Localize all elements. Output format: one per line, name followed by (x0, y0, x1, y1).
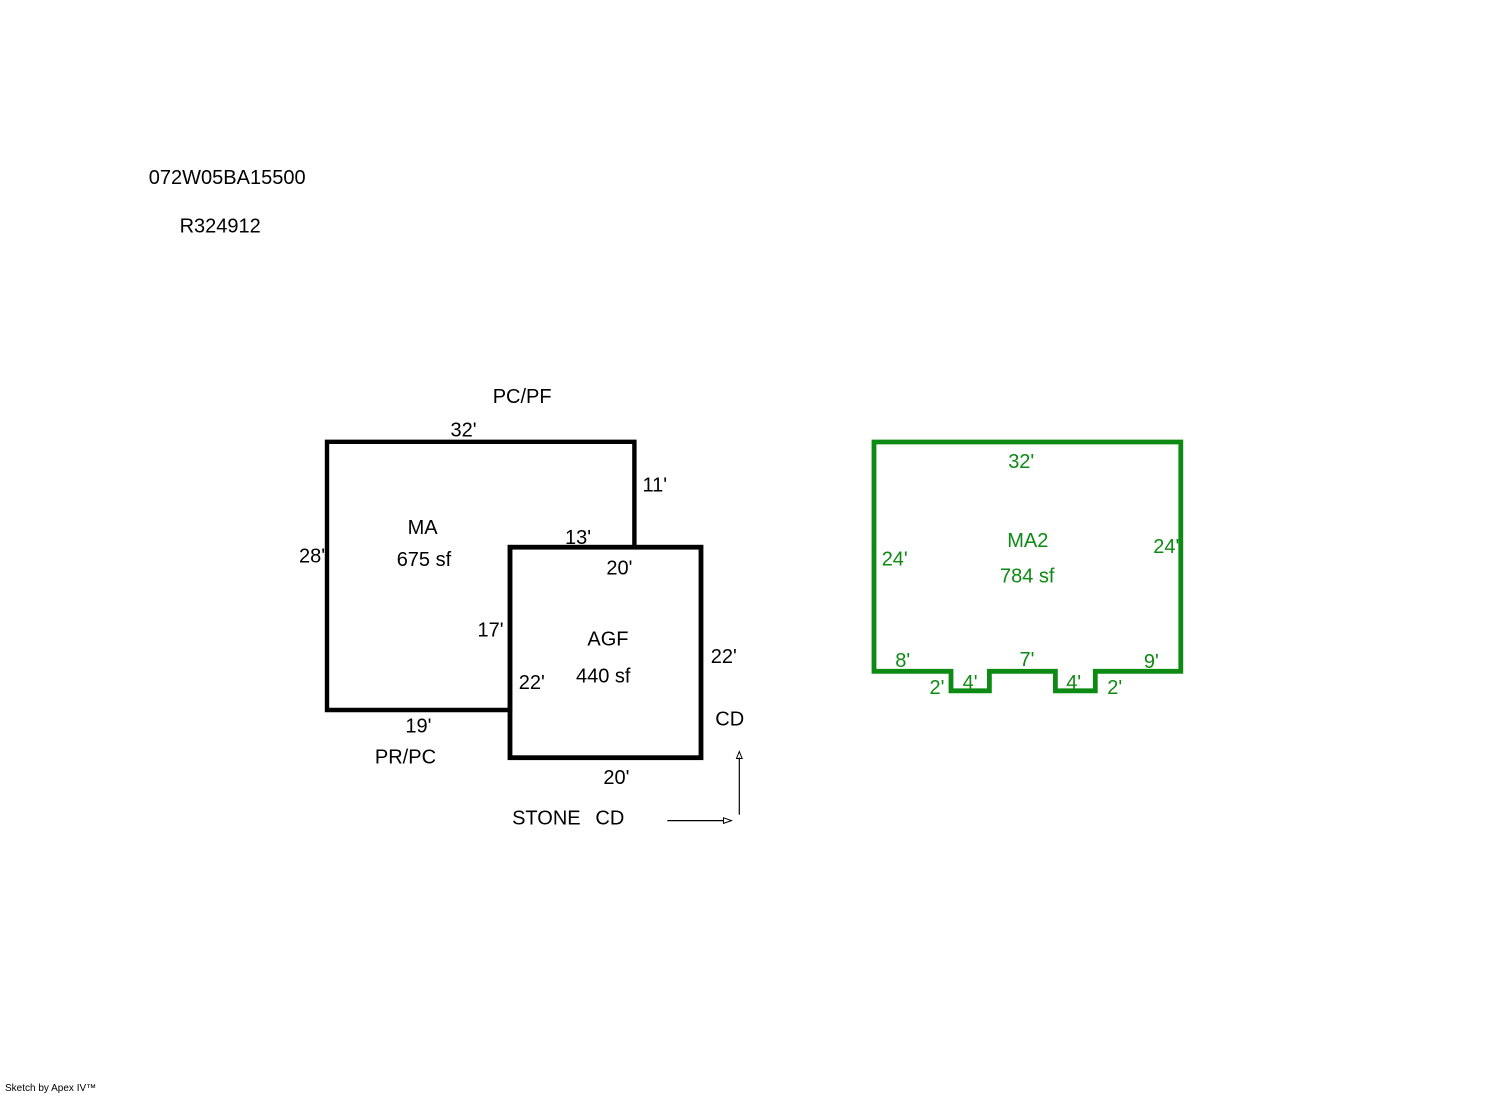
svg-text:28': 28' (299, 546, 325, 568)
svg-text:32': 32' (451, 420, 477, 442)
svg-text:13': 13' (565, 527, 591, 549)
MA outline polygon (327, 442, 634, 710)
svg-text:17': 17' (478, 620, 504, 642)
svg-text:24': 24' (1153, 536, 1179, 558)
north arrow head (737, 752, 743, 759)
svg-text:AGF: AGF (587, 629, 628, 651)
svg-text:R324912: R324912 (180, 216, 261, 238)
MA2 outline polygon (green) (874, 442, 1181, 691)
svg-text:072W05BA15500: 072W05BA15500 (149, 167, 306, 189)
svg-text:7': 7' (1020, 649, 1035, 671)
svg-text:MA: MA (408, 517, 439, 539)
svg-text:19': 19' (405, 715, 431, 737)
svg-text:8': 8' (895, 650, 910, 672)
north arrow vertical line (738, 758, 740, 815)
svg-text:784 sf: 784 sf (1000, 565, 1055, 587)
east arrow horizontal line (667, 820, 723, 822)
svg-text:675 sf: 675 sf (397, 549, 452, 571)
svg-text:11': 11' (643, 474, 668, 496)
svg-text:22': 22' (519, 672, 545, 694)
svg-text:PR/PC: PR/PC (375, 747, 436, 769)
svg-text:Sketch by Apex IV™: Sketch by Apex IV™ (5, 1083, 96, 1094)
svg-text:440 sf: 440 sf (576, 665, 631, 687)
svg-text:2': 2' (1107, 677, 1122, 699)
svg-text:20': 20' (606, 557, 632, 579)
svg-text:STONE: STONE (512, 808, 581, 830)
svg-text:24': 24' (882, 549, 908, 571)
svg-text:22': 22' (711, 646, 737, 668)
east arrow head (724, 818, 732, 824)
svg-text:4': 4' (963, 672, 978, 694)
svg-text:CD: CD (715, 709, 744, 731)
svg-text:9': 9' (1144, 651, 1159, 673)
svg-text:2': 2' (930, 677, 945, 699)
svg-text:20': 20' (603, 767, 629, 789)
AGF outline rect (510, 547, 701, 758)
svg-text:PC/PF: PC/PF (493, 386, 552, 408)
svg-text:CD: CD (595, 808, 624, 830)
svg-text:32': 32' (1008, 451, 1034, 473)
svg-text:4': 4' (1066, 672, 1081, 694)
svg-text:MA2: MA2 (1007, 530, 1048, 552)
